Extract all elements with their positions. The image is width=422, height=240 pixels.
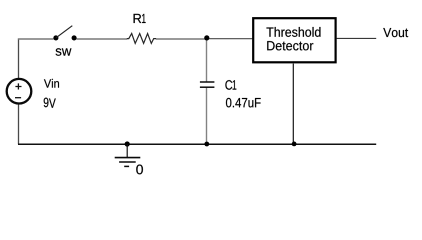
voltage source minus sign <box>15 97 21 99</box>
switch sw left contact dot <box>53 35 58 40</box>
node junction dot: capacitor lead on ground rail <box>204 142 209 147</box>
switch sw lever <box>56 26 72 38</box>
wire: detector output to Vout <box>337 37 377 39</box>
label Vin <box>44 79 59 88</box>
label C1 <box>225 80 236 90</box>
label 9V <box>44 98 56 108</box>
threshold detector U1 box <box>253 18 335 62</box>
wire: capacitor top lead <box>206 39 208 82</box>
label 0.47uF <box>226 98 261 108</box>
wire: top rail, node junction to detector box input <box>207 38 253 40</box>
label Threshold <box>266 27 320 37</box>
resistor R1 zigzag <box>127 34 156 44</box>
label sw <box>56 48 72 55</box>
label Vout <box>383 28 408 37</box>
node junction dot: detector lead on ground rail <box>292 142 297 147</box>
capacitor C1 top plate <box>200 81 215 83</box>
ground bar 2 <box>119 161 136 163</box>
wire: detector bottom lead down to ground rail <box>292 64 294 144</box>
wire: top rail, resistor to node junction <box>156 38 207 40</box>
wire: left vertical, source bottom pin down to ground rail <box>18 104 20 144</box>
label Detector <box>267 41 313 50</box>
node junction dot: resistor / capacitor / detector net <box>204 35 209 40</box>
label R1 <box>134 14 146 23</box>
label 0 (ground net) <box>136 165 143 175</box>
wire: left vertical, top rail down to source top pin <box>18 39 20 79</box>
wire: top rail, switch right contact to resistor <box>76 38 127 40</box>
voltage source V1 circle <box>7 79 32 104</box>
ground bar 1 <box>115 157 141 159</box>
wire: bottom ground rail <box>18 143 376 145</box>
ground stub wire <box>126 144 128 157</box>
switch sw right contact dot <box>72 35 77 40</box>
wire: capacitor bottom lead <box>206 87 208 144</box>
voltage source plus sign <box>15 83 21 89</box>
wire: top rail, corner to switch left contact <box>18 38 54 40</box>
ground bar 3 <box>124 165 129 167</box>
capacitor C1 bottom plate <box>200 86 215 88</box>
node junction dot: ground symbol tap on rail <box>125 141 130 146</box>
